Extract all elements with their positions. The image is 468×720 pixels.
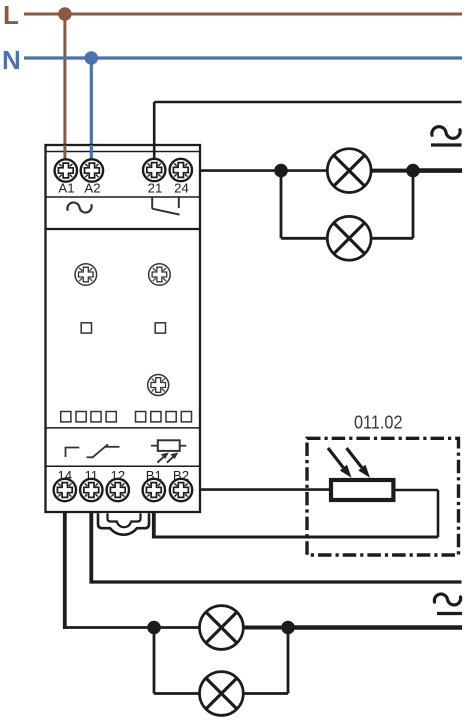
wire 24 to lamps [192,169,282,172]
wire bottom branch left [154,692,202,695]
wire lamp E3 to junction [242,626,289,630]
node bottom-left lamp junction [147,621,161,635]
lamp E2 [327,216,371,260]
wire bottom branch right vertical [287,628,290,694]
wire into lamp E1 [281,169,330,172]
lamp E3 [200,606,244,650]
relay divider above bottom labels [46,465,201,467]
screw S1 [75,264,97,286]
photoresistor B1 body [331,480,393,500]
AC source symbol top tilde [432,127,460,139]
terminal 24 [170,159,192,181]
lamp E4 [200,672,244,716]
photoresistor symbol small [151,440,187,462]
terminal 21 [143,159,165,181]
wire branch right vertical [412,171,415,239]
wire 11 down [89,500,93,584]
photoresistor light arrow 2 [347,448,371,478]
relay divider under top labels [46,196,201,198]
wire branch left vertical [280,171,283,239]
wire to AC source bottom [288,625,462,630]
wire stub A2 [90,145,93,160]
node top-left lamp junction [274,164,288,178]
indicator window right [155,323,165,333]
terminal B2 [170,479,192,501]
terminal B1 [143,479,165,501]
svg-text:A1: A1 [58,181,74,196]
wire stub 21 [153,145,156,160]
wire L rail [24,13,462,16]
terminal 11 [80,479,102,501]
svg-text:L: L [3,0,19,30]
contact symbol 14 [66,448,80,458]
screw S3 [148,375,169,396]
photocell boundary box [307,438,459,555]
wire to AC source top [413,168,462,173]
indicator window left [81,323,91,333]
AC source symbol bottom tilde [434,594,460,605]
wire bottom branch left vertical [153,628,156,694]
node junction on N [85,51,99,65]
terminal A1 [55,159,77,181]
relay divider top section [46,228,201,230]
node junction on L [58,7,72,21]
wire B2 to sensor [192,488,332,491]
wire L to A1 [63,14,66,162]
wire stub A1 [63,145,66,160]
lamp E1 [327,149,371,193]
wire N to A2 [90,58,93,162]
svg-text:24: 24 [174,181,189,196]
wire bottom branch right [242,692,288,695]
wire into lamp E3 [154,626,202,629]
wire B1 down [152,500,156,539]
wire N rail [24,56,462,59]
photoresistor light arrow 1 [328,448,352,478]
relay contact symbol 21-24 [152,198,179,215]
wire sensor right lead [393,489,438,492]
wire 14 down [63,500,67,629]
node top-right lamp junction [406,164,420,178]
svg-text:A2: A2 [84,181,100,196]
DIN rail clip [98,513,149,535]
wire B1 to sensor return [154,536,438,539]
wire sensor return vertical [437,490,440,537]
AC coil symbol [67,202,91,212]
terminal A2 [81,159,103,181]
relay divider above bottom symbols [46,427,201,429]
terminal 14 [54,479,76,501]
vent slots row [61,412,192,422]
svg-text:21: 21 [148,181,163,196]
wire lamp E1 to junction [370,169,414,173]
wire top supply [154,101,461,104]
wire 11 to AC source bottom [91,580,461,583]
svg-text:N: N [2,45,21,75]
wire 14 to lamps [65,626,155,629]
terminal 12 [107,479,129,501]
wire branch bottom right [370,237,413,240]
relay case seam [46,151,201,153]
wire 21 up [153,102,156,162]
screw S2 [149,264,171,286]
AC source symbol bottom bar [437,612,462,615]
contact symbol 11-12 [87,444,120,458]
wire branch bottom left [281,237,330,240]
relay K1 body [46,145,201,512]
svg-text:011.02: 011.02 [354,412,403,433]
node bottom-right lamp junction [281,621,295,635]
AC source symbol top bar [431,143,462,146]
